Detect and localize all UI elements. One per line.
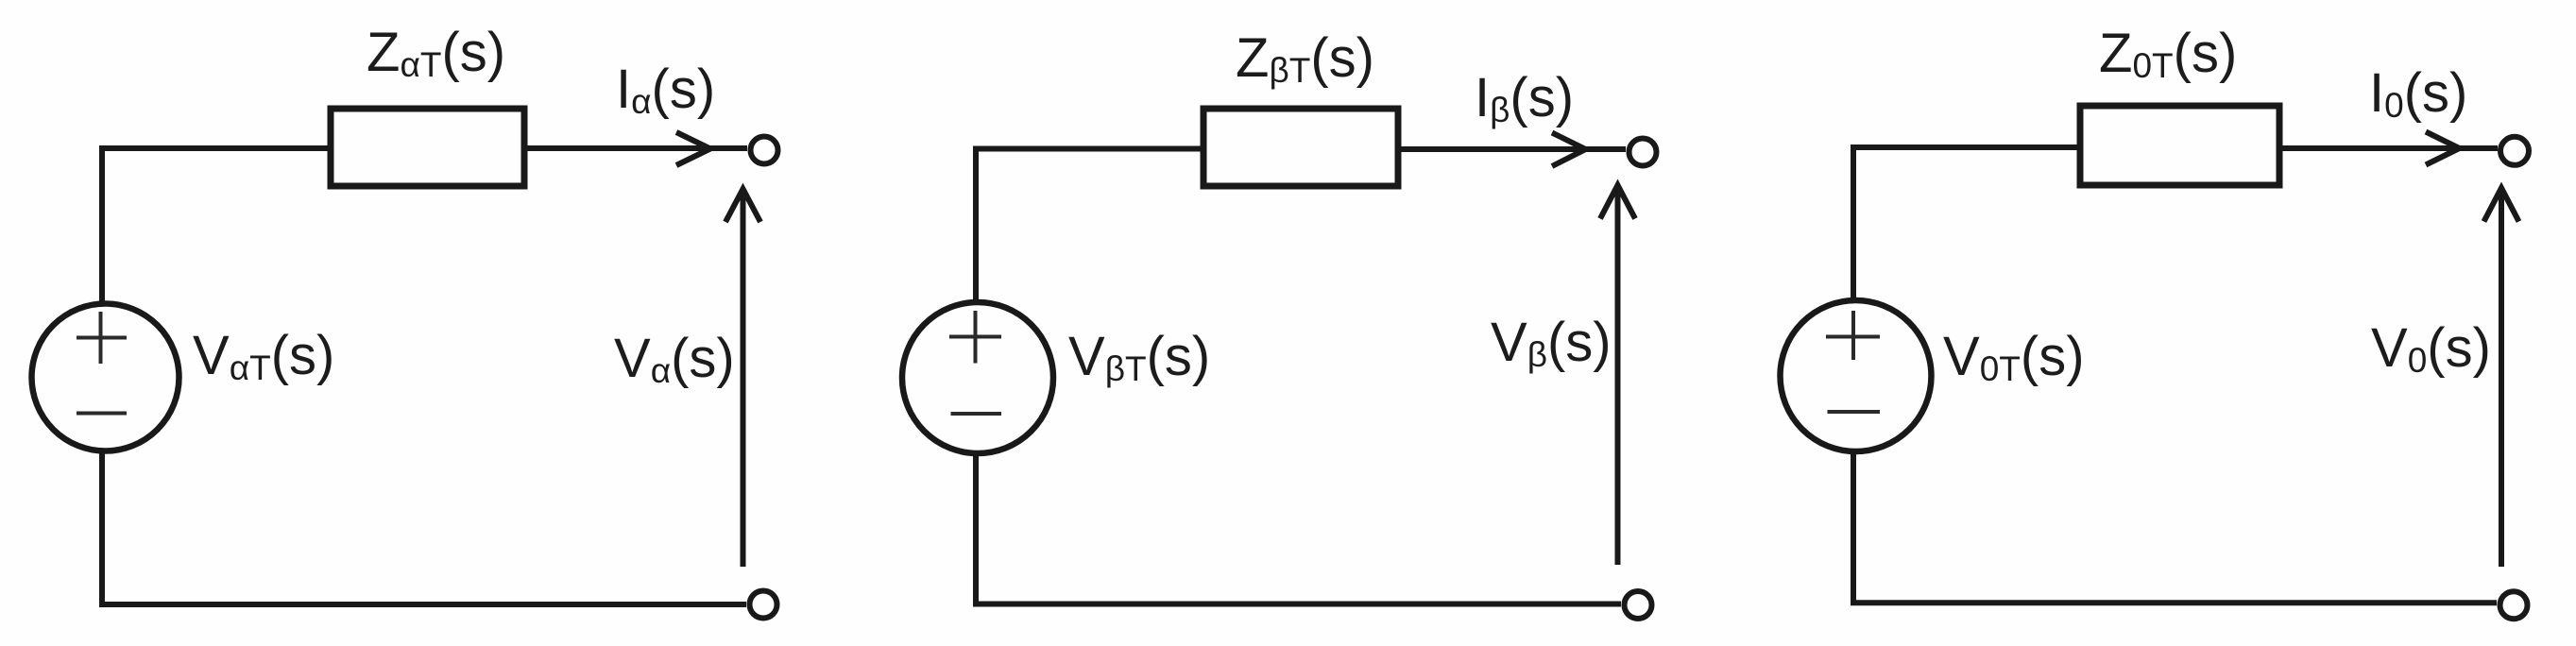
polarity plus sign [1826,311,1880,360]
polarity plus sign [949,311,1001,364]
resistor Z_aT box [331,109,524,186]
voltage arrow V_beta (vertical, pointing up) [1600,185,1635,565]
polarity minus sign [951,412,1002,416]
voltage source V_0T circle [1781,300,1932,451]
wire: left vertical (source bottom to bottom wire) [1851,451,1856,603]
polarity minus sign [77,412,127,416]
voltage arrow V_alpha (vertical, pointing up) [725,189,760,567]
polarity plus sign [77,312,127,364]
resistor Z_bT box [1203,109,1398,186]
wire: top-left horizontal (source to Z box) [99,145,331,151]
wire: left vertical (top wire down to source top) [973,146,979,302]
svg-text:ZβT(s): ZβT(s) [1236,27,1374,90]
wire: left vertical (source bottom to bottom wire) [973,455,979,604]
node: top output terminal [2500,137,2529,165]
svg-text:ZαT(s): ZαT(s) [367,22,505,84]
resistor Z_0T box [2080,106,2279,185]
svg-text:V0(s): V0(s) [2371,317,2491,380]
wire: left vertical (source bottom to bottom wire) [99,453,105,604]
voltage source V_bT circle [902,302,1053,453]
wire: top-right horizontal (Z box to terminal) [524,145,747,151]
svg-text:Vα(s): Vα(s) [614,328,735,390]
wire: top-left horizontal (source to Z box) [973,146,1203,152]
svg-text:Iα(s): Iα(s) [616,59,715,121]
wire: left vertical (top wire down to source top) [99,145,105,301]
node: bottom output terminal [1625,591,1652,619]
wire: top-left horizontal (source to Z box) [1851,144,2080,150]
voltage source V_aT circle [32,304,179,451]
wire: bottom horizontal [99,602,746,607]
svg-text:Iβ(s): Iβ(s) [1475,67,1574,129]
svg-text:VαT(s): VαT(s) [193,325,334,387]
svg-text:VβT(s): VβT(s) [1068,326,1210,388]
svg-text:Z0T(s): Z0T(s) [2099,23,2237,85]
node: bottom output terminal [750,591,777,619]
svg-text:V0T(s): V0T(s) [1943,326,2085,388]
node: bottom output terminal [2500,591,2528,619]
node: top output terminal [751,137,778,164]
svg-text:Vβ(s): Vβ(s) [1491,312,1612,374]
polarity minus sign [1828,410,1881,414]
wire: left vertical (top wire down to source top) [1851,144,1856,300]
svg-text:I0(s): I0(s) [2369,62,2467,125]
node: top output terminal [1629,139,1657,166]
wire: bottom horizontal [973,602,1621,607]
wire: top-right horizontal (Z box to terminal) [2279,145,2498,151]
current direction arrowhead I_beta [1552,133,1586,167]
wire: top-right horizontal (Z box to terminal) [1398,146,1626,152]
voltage arrow V_0 (vertical, pointing up) [2484,188,2519,567]
wire: bottom horizontal [1851,600,2497,605]
current direction arrowhead I_0 [2426,132,2460,165]
current direction arrowhead I_alpha [676,132,710,165]
